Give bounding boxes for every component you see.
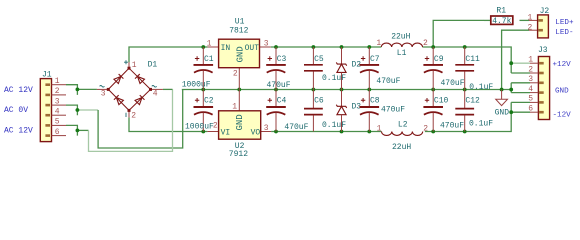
inductor L2: [377, 121, 429, 152]
wire -12V rail (L2 to J3 corner): [425, 102, 511, 131]
svg-text:+12V: +12V: [553, 61, 572, 69]
svg-text:2: 2: [528, 23, 533, 32]
wire LED- from J2.2 to GND: [502, 30, 529, 89]
junction dots GND rail: [201, 88, 205, 92]
svg-text:1000uF: 1000uF: [182, 80, 211, 89]
wire J1 pins 5-6 (AC2) junction: [66, 125, 77, 135]
svg-text:J1: J1: [42, 70, 52, 79]
svg-text:1: 1: [55, 77, 60, 86]
svg-text:6: 6: [528, 105, 533, 114]
wire J1 pins 1-2 to bridge AC1: [66, 85, 77, 95]
wire J3 +12V vertical: [511, 62, 530, 64]
svg-text:LED-: LED-: [555, 29, 573, 37]
wire +12V raw rail (bridge + to U1 IN): [129, 47, 208, 62]
svg-text:J3: J3: [538, 46, 548, 55]
svg-text:470uF: 470uF: [441, 79, 465, 88]
svg-text:0.1uF: 0.1uF: [469, 83, 493, 92]
svg-text:IN: IN: [221, 44, 231, 53]
capacitor C5 (ceramic): [304, 47, 346, 90]
capacitor C3 (electrolytic): [266, 47, 291, 90]
svg-text:1: 1: [132, 61, 137, 70]
svg-text:C10: C10: [434, 97, 449, 106]
svg-text:1: 1: [207, 39, 212, 48]
wire J3 -12V vertical: [511, 101, 530, 103]
resistor R1: [491, 7, 513, 27]
connector J3: [528, 46, 549, 120]
svg-text:1: 1: [528, 14, 533, 23]
wire AC 0V to GND rail: [77, 109, 98, 111]
svg-text:2: 2: [213, 121, 218, 130]
bridge rectifier D1: [97, 60, 163, 120]
wire AC2 to bridge AC2: [77, 129, 88, 131]
junction dots J1 nets: [76, 88, 80, 92]
svg-text:22uH: 22uH: [392, 143, 411, 152]
svg-text:AC 12V: AC 12V: [4, 127, 33, 136]
svg-text:GND: GND: [235, 114, 245, 130]
svg-text:1: 1: [232, 103, 237, 112]
capacitor C6 (ceramic): [304, 90, 346, 132]
svg-text:C8: C8: [370, 97, 380, 106]
svg-text:4: 4: [528, 85, 533, 94]
connector J1: [40, 70, 66, 141]
wire J1 pins 3-4 (AC 0V) junction: [66, 105, 77, 115]
voltage regulator U2 7912: [207, 90, 271, 160]
junction dots +12V rail: [201, 45, 205, 49]
svg-text:R1: R1: [496, 7, 506, 16]
capacitor C9 (electrolytic): [423, 47, 464, 90]
connector J2: [528, 7, 550, 38]
svg-text:C3: C3: [277, 55, 287, 64]
svg-text:3: 3: [264, 124, 269, 133]
zener diode D2: [336, 47, 361, 90]
svg-text:C1: C1: [204, 55, 214, 64]
svg-text:470uF: 470uF: [267, 81, 291, 90]
zener diode D3: [336, 90, 361, 132]
svg-text:2: 2: [423, 124, 428, 133]
capacitor C2 (electrolytic): [185, 90, 214, 132]
svg-text:LED+: LED+: [555, 19, 574, 27]
svg-text:3: 3: [101, 90, 106, 99]
svg-text:GND: GND: [495, 108, 510, 117]
svg-text:470uF: 470uF: [381, 106, 405, 115]
svg-text:L2: L2: [398, 121, 408, 130]
svg-text:1: 1: [376, 39, 381, 48]
ground symbol: [495, 90, 510, 118]
svg-text:7812: 7812: [229, 26, 248, 35]
capacitor C10 (electrolytic): [423, 90, 464, 132]
capacitor C4 (electrolytic): [266, 90, 308, 133]
wire GND rail: [182, 89, 511, 91]
svg-text:470uF: 470uF: [284, 123, 308, 132]
voltage regulator U1 7812: [207, 18, 271, 90]
svg-text:VI: VI: [221, 128, 231, 137]
svg-text:1: 1: [528, 56, 533, 65]
svg-text:470uF: 470uF: [376, 77, 400, 86]
capacitor C1 (electrolytic): [182, 47, 214, 90]
svg-text:2: 2: [55, 87, 60, 96]
svg-text:6: 6: [55, 128, 60, 137]
svg-text:VO: VO: [251, 128, 261, 137]
svg-text:3: 3: [55, 97, 60, 106]
svg-text:5: 5: [528, 95, 533, 104]
svg-text:AC 0V: AC 0V: [4, 106, 28, 115]
svg-text:J2: J2: [540, 7, 550, 16]
inductor L1: [376, 33, 428, 59]
junction dots -12V rail: [201, 130, 205, 134]
wire +12V rail (L1 to J3 corner): [422, 47, 511, 73]
svg-text:2: 2: [131, 111, 136, 120]
svg-text:2: 2: [528, 65, 533, 74]
svg-text:C11: C11: [465, 55, 480, 64]
wire -12V rail (U2 VO to L2): [271, 131, 381, 133]
svg-text:1000uF: 1000uF: [185, 123, 214, 132]
svg-text:C6: C6: [314, 97, 324, 106]
svg-text:AC 12V: AC 12V: [4, 86, 33, 95]
wire +12V rail (U1 OUT to L1): [271, 46, 382, 48]
svg-text:C5: C5: [314, 55, 324, 64]
svg-text:4: 4: [55, 107, 60, 116]
svg-text:22uH: 22uH: [391, 33, 410, 42]
wire R1 to J2.1: [484, 19, 491, 21]
svg-text:2: 2: [233, 69, 238, 78]
wire J3 GND vertical: [510, 83, 512, 93]
svg-text:C12: C12: [465, 97, 480, 106]
svg-text:C2: C2: [204, 97, 214, 106]
svg-text:U1: U1: [235, 18, 245, 27]
wire bridge AC2 stub run: [163, 88, 173, 90]
svg-text:470uF: 470uF: [440, 122, 464, 131]
svg-text:1: 1: [377, 124, 382, 133]
svg-text:0.1uF: 0.1uF: [322, 121, 346, 130]
capacitor C8 (electrolytic): [360, 90, 406, 132]
svg-text:L1: L1: [397, 49, 407, 58]
svg-text:7912: 7912: [229, 150, 248, 159]
svg-text:4.7k: 4.7k: [492, 17, 511, 26]
capacitor C11 (ceramic): [455, 47, 493, 92]
svg-text:C9: C9: [434, 55, 444, 64]
svg-text:0.1uF: 0.1uF: [469, 120, 493, 129]
svg-text:5: 5: [55, 118, 60, 127]
svg-text:C4: C4: [277, 97, 287, 106]
svg-text:GND: GND: [236, 46, 246, 62]
wire -12V raw rail (bridge - to U2 VI): [129, 117, 207, 131]
wire R1 feed from +12V rail: [433, 20, 484, 47]
svg-text:GND: GND: [555, 88, 569, 96]
svg-text:-12V: -12V: [553, 112, 572, 120]
capacitor C12 (ceramic): [455, 90, 493, 132]
svg-text:OUT: OUT: [245, 44, 260, 53]
svg-text:D1: D1: [148, 61, 158, 70]
capacitor C7 (electrolytic): [360, 47, 401, 90]
svg-text:3: 3: [528, 75, 533, 84]
svg-text:C7: C7: [370, 55, 380, 64]
svg-text:4: 4: [153, 90, 158, 99]
svg-text:0.1uF: 0.1uF: [322, 74, 346, 83]
svg-text:2: 2: [423, 39, 428, 48]
svg-text:3: 3: [264, 39, 269, 48]
